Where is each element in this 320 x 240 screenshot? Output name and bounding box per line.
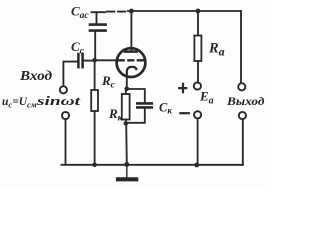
wire bottom rail: [62, 164, 244, 166]
node anode-rail junction: [129, 9, 134, 14]
svg-text:sinωt: sinωt: [35, 94, 80, 108]
resistor Ra: [194, 11, 201, 82]
label Rk: [108, 106, 124, 124]
svg-text:Cк: Cк: [159, 101, 172, 116]
terminal input upper: [60, 86, 67, 93]
node Ra-rail junction: [196, 9, 201, 14]
wire output lower to bottom rail: [242, 119, 244, 165]
tube anode plate: [125, 50, 137, 53]
node Rc-rail junction: [92, 163, 97, 168]
label minus: [179, 112, 190, 114]
tube cathode: [127, 67, 137, 75]
svg-text:Cac: Cac: [71, 4, 89, 22]
label Ck: [159, 101, 172, 116]
label plus: [178, 83, 187, 94]
wire Ea minus to bottom rail: [197, 119, 199, 165]
label Ea: [199, 89, 214, 107]
wire top-right drop to output upper terminal: [240, 11, 242, 83]
label Вход: [19, 69, 52, 84]
resistor Rk: [122, 89, 130, 124]
wire top rail: [128, 10, 241, 12]
node Rk bottom junction: [124, 121, 129, 126]
terminal input lower: [62, 112, 69, 119]
svg-text:Выход: Выход: [226, 94, 265, 108]
wire cathode lead: [126, 75, 128, 89]
capacitor Ck: [127, 89, 152, 123]
tube grid (dashed): [117, 59, 144, 61]
terminal output upper: [238, 83, 245, 90]
svg-text:Rc: Rc: [101, 73, 116, 91]
capacitor Cac: [90, 12, 106, 58]
node cathode junction: [125, 86, 130, 91]
svg-text:Вход: Вход: [19, 69, 52, 84]
wire Rk bottom to rail: [125, 123, 128, 164]
node Ea-rail junction: [194, 163, 199, 168]
terminal output lower: [239, 112, 246, 119]
wire anode lead: [130, 11, 132, 50]
svg-text:Ea: Ea: [199, 89, 214, 107]
node grid junction: [92, 58, 97, 63]
label Выход: [226, 94, 265, 108]
wire grid lead: [95, 59, 117, 61]
label uc=Ucm sinwt: [2, 94, 81, 110]
svg-text:Ra: Ra: [208, 41, 225, 59]
resistor Rc: [91, 62, 98, 165]
svg-text:Cc: Cc: [71, 39, 85, 57]
node ground junction: [124, 162, 129, 167]
wire dashed link Cac to top rail: [107, 11, 128, 13]
label Ra: [208, 41, 225, 59]
wire input to Cc: [63, 62, 76, 87]
label Cac: [71, 4, 89, 22]
label Rc: [101, 73, 116, 91]
capacitor Cc: [78, 54, 92, 67]
svg-text:uc=Uсм: uc=Uсм: [2, 96, 37, 110]
op-amp/tube triode VL1 envelope: [117, 48, 146, 77]
ground: [118, 165, 136, 180]
wire input lower to bottom rail: [65, 119, 67, 164]
label Cc: [71, 39, 85, 57]
terminal Ea plus: [194, 82, 201, 89]
terminal Ea minus: [194, 111, 201, 118]
